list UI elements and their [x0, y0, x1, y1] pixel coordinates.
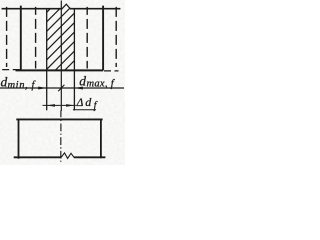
dashed profile line (far right): [115, 7, 117, 67]
thread axis centerline (upper solid part): [60, 1, 62, 112]
svg-text:d: d: [79, 73, 86, 88]
dimension line row 2 (delta d): [43, 104, 76, 106]
lower figure: top line: [16, 118, 102, 120]
top major-diameter line (right part): [71, 8, 121, 10]
svg-text:d: d: [1, 74, 8, 89]
lower figure: bottom line left segment: [14, 156, 62, 158]
svg-text:Δ: Δ: [76, 97, 84, 109]
dimension line row 1 (d_min / d_max): [0, 87, 124, 89]
arrowhead of d_max dimension (points left at band right edge): [75, 87, 83, 90]
crest triangle of max profile: [62, 4, 71, 9]
lower figure: right side: [100, 119, 102, 158]
bottom line of upper figure, solid thick middle: [16, 69, 104, 71]
tolerance band left edge / extension line d_min: [46, 9, 48, 111]
axis centerline through lower figure (dash-dot): [60, 111, 62, 162]
hatching of tolerance band: [0, 0, 154, 80]
leader shelf under delta d_f label: [73, 109, 96, 111]
svg-text:min, f: min, f: [8, 80, 37, 91]
lower figure: bottom line right segment: [74, 156, 106, 158]
dashed profile line (far left): [6, 7, 8, 67]
break (fracture) zigzag: [61, 153, 73, 159]
tolerance band right edge / extension line d_max: [73, 9, 75, 111]
arrowhead delta-d right (tip at right extension line): [66, 104, 74, 107]
oblique tick at centerline on row 1: [58, 85, 64, 92]
bottom line of upper figure, dashed right part: [104, 70, 119, 72]
dashed profile line (mid right): [86, 7, 88, 69]
bottom line of upper figure, dashed left part: [2, 69, 20, 71]
top major-diameter line (left part): [2, 8, 62, 10]
svg-text:max, f: max, f: [87, 79, 116, 90]
solid profile line (right): [102, 6, 104, 71]
dashed profile line (mid left): [35, 7, 37, 69]
svg-text:d: d: [85, 95, 92, 109]
arrowhead of d_min dimension (points right at band left edge): [38, 87, 46, 90]
lower figure: blank rectangle left side: [18, 119, 20, 158]
arrowhead delta-d left (tip at left extension line): [47, 104, 55, 107]
solid profile line (left): [20, 6, 22, 71]
